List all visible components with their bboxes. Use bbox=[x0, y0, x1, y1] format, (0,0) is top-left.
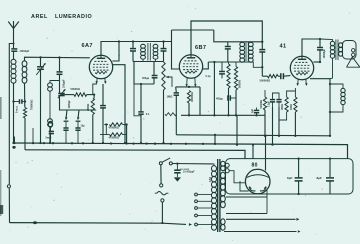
svg-text:300Ω: 300Ω bbox=[290, 104, 293, 110]
svg-text:0,5A: 0,5A bbox=[209, 177, 212, 182]
svg-text:470000Ω: 470000Ω bbox=[109, 127, 119, 130]
svg-text:AREL: AREL bbox=[31, 14, 48, 20]
svg-text:2000Ω: 2000Ω bbox=[87, 104, 90, 111]
svg-text:700000Ω: 700000Ω bbox=[31, 100, 34, 110]
svg-text:50000Ω: 50000Ω bbox=[71, 87, 80, 91]
svg-text:1MΩ: 1MΩ bbox=[167, 95, 174, 99]
svg-text:5mµf: 5mµf bbox=[46, 136, 52, 139]
svg-text:6B7: 6B7 bbox=[195, 45, 206, 51]
svg-text:400000Ω: 400000Ω bbox=[191, 92, 194, 102]
svg-text:470000Ω: 470000Ω bbox=[109, 137, 119, 140]
svg-text:400µµ: 400µµ bbox=[142, 77, 150, 80]
svg-text:8µF: 8µF bbox=[287, 176, 293, 180]
svg-text:41: 41 bbox=[280, 44, 287, 50]
svg-text:500000: 500000 bbox=[239, 79, 242, 88]
svg-text:400µµ: 400µµ bbox=[216, 97, 223, 100]
svg-text:5 m.a.: 5 m.a. bbox=[15, 105, 19, 113]
svg-text:1000µF: 1000µF bbox=[68, 100, 71, 109]
svg-text:0.1µ: 0.1µ bbox=[206, 75, 211, 78]
svg-text:100µµF: 100µµF bbox=[63, 79, 66, 88]
svg-text:110 220V: 110 220V bbox=[180, 169, 190, 171]
svg-text:4µF: 4µF bbox=[251, 108, 254, 113]
svg-text:500000Ω: 500000Ω bbox=[260, 79, 271, 83]
svg-text:LUMERADIO: LUMERADIO bbox=[55, 14, 92, 20]
svg-text:450Ω: 450Ω bbox=[281, 104, 284, 110]
svg-text:10000µF: 10000µF bbox=[323, 48, 326, 58]
svg-text:0.1: 0.1 bbox=[146, 112, 150, 116]
svg-text:-.0004µF: -.0004µF bbox=[19, 49, 30, 53]
svg-text:0.1µF: 0.1µF bbox=[268, 100, 270, 107]
svg-text:6A7: 6A7 bbox=[82, 43, 93, 49]
svg-text:8µF: 8µF bbox=[317, 176, 323, 180]
svg-text:80: 80 bbox=[252, 162, 258, 168]
svg-text:51000Ω: 51000Ω bbox=[260, 100, 263, 109]
